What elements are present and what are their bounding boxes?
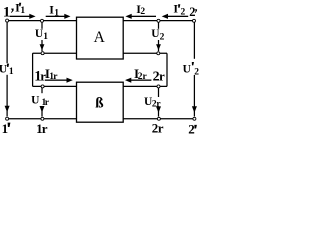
wire U1r segment from Z bbox=[41, 88, 43, 93]
wire U2r segment from Z2 bbox=[158, 88, 160, 97]
svg-text:1: 1 bbox=[20, 6, 25, 16]
svg-text:2: 2 bbox=[189, 5, 195, 19]
wire right riser bbox=[166, 53, 168, 86]
current arrow I1 bbox=[46, 14, 71, 19]
current arrow I'2 bbox=[162, 14, 189, 19]
label comma after 2 bbox=[195, 9, 197, 13]
wire U'2 lower segment bbox=[193, 75, 195, 117]
label I2r bbox=[134, 66, 148, 82]
label terminal 1' bbox=[2, 121, 11, 136]
svg-text:2: 2 bbox=[181, 7, 186, 17]
label U2r bbox=[144, 96, 161, 110]
svg-text:2: 2 bbox=[140, 7, 145, 17]
current arrow I1r bbox=[45, 78, 73, 83]
svg-text:1: 1 bbox=[43, 32, 48, 42]
label I2 bbox=[136, 2, 145, 17]
junction Z2 (B upper-right pin node) bbox=[157, 85, 160, 88]
terminal node 1 bbox=[6, 19, 9, 22]
terminal node 2 bbox=[193, 19, 196, 22]
svg-text:1: 1 bbox=[3, 5, 10, 21]
svg-text:2: 2 bbox=[194, 67, 199, 77]
junction Z (B upper-left pin node) bbox=[41, 85, 44, 88]
wire top-left (node 1 to A pin) bbox=[9, 20, 77, 22]
junction X2 (A lower-right pin node) bbox=[157, 52, 160, 55]
label I'2 bbox=[173, 2, 185, 18]
svg-text:A: A bbox=[94, 29, 106, 46]
label I1r bbox=[45, 66, 58, 82]
svg-text:1: 1 bbox=[9, 67, 14, 77]
wire U2 segment from J2 bbox=[158, 22, 160, 28]
two-port B bbox=[77, 82, 124, 122]
svg-text:r: r bbox=[158, 120, 164, 135]
wire mid-left upper (to A lower pin) bbox=[33, 52, 77, 54]
wire mid-right lower (B upper pin to riser) bbox=[123, 85, 167, 87]
label U2 bbox=[151, 28, 164, 42]
terminal node 2' bbox=[193, 117, 196, 120]
junction W (node 1r) bbox=[41, 117, 44, 120]
svg-text:I: I bbox=[173, 2, 178, 16]
voltage arrowhead U2r bbox=[156, 106, 161, 112]
label U'1 bbox=[0, 64, 14, 78]
voltage arrowhead U1 bbox=[40, 44, 45, 50]
wire U1 segment from J1 bbox=[41, 22, 43, 28]
wire top-right (A pin to node 2) bbox=[123, 20, 192, 22]
wire bottom-left (node 1' to B lower pin) bbox=[9, 118, 77, 120]
wire U'2 upper segment bbox=[193, 22, 195, 58]
label comma after 1 bbox=[11, 9, 14, 13]
voltage arrowhead U'1 bbox=[5, 106, 10, 113]
svg-text:ß: ß bbox=[95, 96, 103, 112]
svg-text:r: r bbox=[159, 69, 165, 84]
svg-text:2: 2 bbox=[188, 121, 195, 136]
junction X (A lower-left pin node) bbox=[41, 52, 44, 55]
label U1r bbox=[31, 95, 50, 109]
label U'2 bbox=[183, 62, 200, 77]
voltage arrowhead U2 bbox=[156, 44, 161, 50]
current arrow I2 bbox=[125, 14, 156, 19]
wire U1 segment above arrowhead bbox=[41, 40, 43, 51]
junction W2 (node 2r) bbox=[157, 117, 160, 120]
wire left riser bbox=[32, 53, 34, 86]
wire mid-left lower (riser to B upper pin) bbox=[33, 85, 77, 87]
label U1 bbox=[35, 28, 48, 42]
svg-text:2: 2 bbox=[160, 32, 165, 42]
current arrow I2r bbox=[125, 78, 151, 83]
voltage arrowhead U'2 bbox=[192, 106, 197, 112]
wire U2 segment above arrowhead bbox=[158, 40, 160, 51]
current arrow I'1 bbox=[10, 14, 36, 19]
wire U'1 upper segment bbox=[6, 22, 8, 63]
label I1 bbox=[49, 3, 59, 19]
junction J1 bbox=[41, 19, 44, 22]
svg-text:U: U bbox=[31, 95, 40, 107]
svg-text:I: I bbox=[15, 1, 20, 15]
svg-text:U: U bbox=[183, 64, 192, 76]
svg-text:r: r bbox=[42, 121, 48, 136]
wire U'1 lower segment bbox=[6, 75, 8, 117]
two-port A bbox=[77, 17, 124, 59]
label terminal 2' bbox=[188, 121, 197, 136]
wire bottom-right (B lower pin to node 2') bbox=[123, 118, 193, 120]
voltage arrowhead U1r bbox=[40, 106, 45, 113]
svg-text:1: 1 bbox=[54, 8, 59, 18]
terminal node 1' bbox=[6, 117, 9, 120]
junction J2 bbox=[157, 19, 160, 22]
wire mid-right upper (A lower pin to riser) bbox=[123, 52, 167, 54]
svg-text:1: 1 bbox=[2, 121, 9, 136]
label I'1 bbox=[15, 1, 25, 17]
svg-text:U: U bbox=[0, 64, 8, 76]
